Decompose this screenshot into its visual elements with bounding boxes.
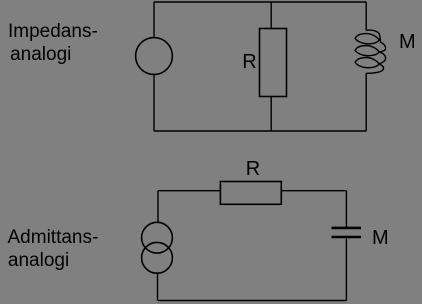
wire top circuit: right vertical below inductor <box>365 73 367 131</box>
label M (bottom circuit capacitor) <box>372 227 389 250</box>
wire top circuit: middle branch below resistor <box>270 97 272 132</box>
label Impedans-analogi line 1 <box>8 20 98 43</box>
inductor M coil <box>355 30 386 73</box>
wire top circuit: left vertical below source <box>153 74 155 131</box>
wire top circuit: bottom horizontal <box>154 130 366 132</box>
wire bottom circuit: left vertical below source <box>157 273 159 300</box>
label R (top circuit resistor) <box>242 51 256 74</box>
wire bottom circuit: top-left horizontal <box>158 190 220 192</box>
wire bottom circuit: left vertical above source <box>157 191 159 223</box>
label Admittans-analogi line 2 <box>8 249 69 272</box>
wire bottom circuit: right vertical below capacitor <box>345 238 347 300</box>
capacitor M: bottom plate <box>332 236 362 239</box>
label Admittans-analogi line 1 <box>8 226 99 249</box>
current source: lower circle <box>142 242 173 273</box>
current source: upper circle <box>142 222 173 253</box>
capacitor M: top plate <box>332 227 362 230</box>
resistor R (top circuit) <box>260 29 287 97</box>
wire bottom circuit: right vertical above capacitor <box>345 191 347 227</box>
label M (top circuit inductor) <box>399 31 416 54</box>
voltage source circle <box>136 38 173 75</box>
label R (bottom circuit resistor) <box>246 158 260 181</box>
wire top circuit: left vertical above source <box>153 2 155 38</box>
wire top circuit: right vertical above inductor <box>365 2 367 30</box>
wire top circuit: top horizontal <box>154 1 366 3</box>
wire bottom circuit: top-right horizontal <box>281 190 346 192</box>
wire top circuit: middle branch above resistor <box>270 2 272 29</box>
label Impedans-analogi line 2 <box>10 43 71 66</box>
resistor R (bottom circuit) <box>220 182 281 205</box>
wire bottom circuit: bottom horizontal <box>158 300 346 302</box>
